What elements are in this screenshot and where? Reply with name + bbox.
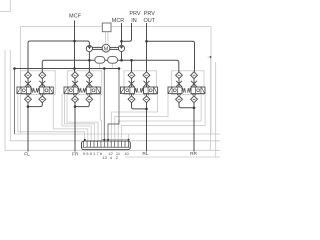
svg-text:10: 10 xyxy=(124,151,129,156)
pump shaft upper left xyxy=(93,46,103,48)
wire bottom rail 2 right xyxy=(130,140,220,142)
svg-text:FL: FL xyxy=(24,152,30,158)
solenoid valve V7 RR inlet xyxy=(168,87,186,94)
junction front pump suction xyxy=(88,59,91,62)
junction connector pin 14 xyxy=(128,139,130,141)
valve block box FL xyxy=(21,71,56,95)
pump shaft lower left xyxy=(93,48,103,50)
wire stub at node P xyxy=(208,56,211,58)
svg-text:RL: RL xyxy=(142,151,148,157)
junction connector pin 8 xyxy=(107,139,109,141)
valve block box RR xyxy=(172,71,205,95)
wire coil RL inlet to pin 6 xyxy=(100,94,101,141)
solenoid valve V5 RL inlet xyxy=(121,87,139,94)
wire PRV IN branch xyxy=(122,23,132,41)
wire coil FR outlet to pin 4 xyxy=(65,94,95,141)
wire FR merge xyxy=(75,103,89,107)
wire coil RL outlet to pin 9 xyxy=(111,94,157,141)
valve column FR inlet with check valves xyxy=(72,72,79,103)
junction connector pin 1 xyxy=(84,139,86,141)
junction MCF split xyxy=(73,40,76,43)
junction PRV OUT branch xyxy=(145,40,148,43)
wire FL wheel line xyxy=(27,103,29,152)
junction RL merge xyxy=(145,108,148,111)
valve block box FR xyxy=(67,71,102,95)
wire motor supply bus right xyxy=(108,69,119,140)
wire coil FL inlet to pin 1 xyxy=(18,94,85,140)
wire ground stub to pin 14 xyxy=(128,134,130,140)
wire MCF feed vertical xyxy=(74,21,76,72)
page corner mark top-left xyxy=(0,0,10,12)
wire coil RR spare to pin 12 xyxy=(122,95,205,141)
HECU housing box xyxy=(21,27,212,134)
accumulator A2 rear xyxy=(108,57,118,64)
solenoid valve V4 FR outlet xyxy=(83,87,101,94)
valve column RR outlet with check valves xyxy=(191,72,198,103)
wire FR wheel line xyxy=(74,103,76,152)
wire accumulator stub rear xyxy=(112,63,114,68)
junction MCF manifold cross xyxy=(73,67,76,70)
svg-text:RR: RR xyxy=(190,151,197,157)
junction rear pump suction xyxy=(120,59,123,62)
motor relay box K1 xyxy=(102,23,111,32)
wire return drop left xyxy=(14,69,16,135)
junction MCR pump top xyxy=(120,40,123,43)
connector J1 pins xyxy=(83,141,130,147)
wire RL inlet drop xyxy=(131,60,133,72)
wire coil FL outlet to pin 2 xyxy=(53,94,88,141)
wire left perimeter outer xyxy=(4,50,6,150)
wire front feed rail xyxy=(28,41,89,72)
wire return manifold xyxy=(15,68,120,70)
valve column RL outlet with check valves xyxy=(143,72,150,103)
wire front pump drop xyxy=(88,52,90,72)
junction FL merge xyxy=(27,105,30,108)
wire right perimeter inner xyxy=(210,57,212,150)
wire motor supply bus left xyxy=(103,69,105,140)
wire bottom rail 4 xyxy=(125,156,220,158)
svg-text:MCF: MCF xyxy=(69,13,82,19)
wire coil RR inlet to pin 10 xyxy=(115,94,168,141)
solenoid valve V1 FL inlet xyxy=(17,87,35,94)
valve column RL inlet with check valves xyxy=(128,72,135,103)
wire relay to motor lead 1 xyxy=(104,32,106,45)
wire FL merge xyxy=(28,103,42,107)
junction motor bus left xyxy=(103,67,106,70)
wire PRV OUT vertical xyxy=(146,23,148,72)
valve column FL outlet with check valves xyxy=(39,72,46,103)
wire right perimeter outer xyxy=(215,62,217,157)
wire MCR feed vertical xyxy=(121,23,123,45)
wire RL wheel line xyxy=(146,103,148,152)
svg-text:PRV: PRV xyxy=(144,11,156,17)
pump P2 rear xyxy=(118,45,124,51)
pin number labels row 1 xyxy=(83,151,130,156)
wire RL merge xyxy=(132,103,147,109)
wire bottom rail 1 xyxy=(15,133,221,135)
solenoid valve V8 RR outlet xyxy=(187,87,205,94)
valve column RR inlet with check valves xyxy=(176,72,183,103)
wire left perimeter inner xyxy=(9,50,11,141)
wire coil RR outlet to pin 11 xyxy=(118,95,201,141)
pump P1 front xyxy=(86,46,92,52)
connector J1 bus bar xyxy=(101,139,129,141)
junction FR merge xyxy=(74,105,77,108)
valve column FR outlet with check valves xyxy=(86,72,93,103)
wire PRV OUT branch to RR xyxy=(147,41,195,72)
junction connector pin 7 xyxy=(103,139,105,141)
svg-text:M: M xyxy=(104,46,109,52)
solenoid valve V6 RL outlet xyxy=(140,87,158,94)
svg-text:OUT: OUT xyxy=(143,18,155,24)
valve column FL inlet with check valves xyxy=(25,72,32,103)
pin number labels row 2 xyxy=(102,155,119,160)
wire relay to motor lead 2 xyxy=(107,32,109,45)
junction return manifold left xyxy=(13,67,16,70)
wire RR merge xyxy=(179,103,194,108)
junction node P xyxy=(210,56,212,58)
solenoid valve V3 FR inlet xyxy=(64,87,82,94)
wire accumulator stub front xyxy=(98,63,100,68)
valve block box RL xyxy=(124,71,157,95)
pump shaft upper right xyxy=(110,46,119,48)
junction RR merge xyxy=(193,107,196,110)
wire coil FR inlet to pin 3 xyxy=(62,94,91,141)
wire bottom rail 3 xyxy=(5,149,220,151)
wire rear pump drop xyxy=(121,52,123,61)
svg-text:13: 13 xyxy=(102,155,107,160)
svg-text:IN: IN xyxy=(131,18,137,24)
solenoid valve V2 FL outlet xyxy=(36,87,54,94)
svg-text:FR: FR xyxy=(72,151,79,157)
connector J1 body xyxy=(82,141,131,150)
motor M1 xyxy=(102,44,110,52)
svg-text:PRV: PRV xyxy=(129,11,141,17)
accumulator A1 front xyxy=(95,57,105,64)
junction motor bus right xyxy=(118,67,121,70)
pump shaft lower right xyxy=(110,48,119,50)
wire suction rail xyxy=(42,60,179,72)
junction RL inlet tap xyxy=(130,59,133,62)
wire coil FR spare to pin 5 xyxy=(67,95,98,141)
wire RR wheel line xyxy=(193,103,195,152)
svg-text:MCR: MCR xyxy=(112,18,125,24)
wire bottom rail 2 left xyxy=(10,140,81,142)
